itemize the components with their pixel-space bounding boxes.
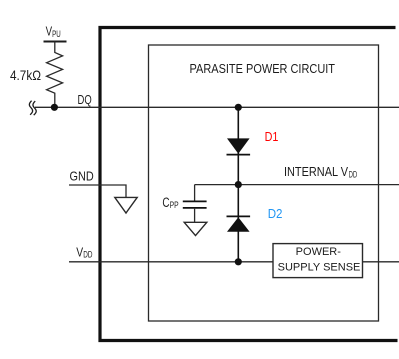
wire DQ	[35, 106, 399, 108]
wire internal VDD	[195, 184, 399, 186]
svg-text:POWER-: POWER-	[296, 246, 342, 258]
svg-text:INTERNAL V: INTERNAL V	[284, 165, 349, 179]
wire VDD left	[69, 261, 273, 263]
diode D2	[227, 216, 251, 231]
svg-text:SUPPLY SENSE: SUPPLY SENSE	[278, 261, 361, 273]
label INTERNAL VDD	[284, 165, 357, 179]
ground symbol GND	[115, 197, 137, 213]
svg-text:4.7kΩ: 4.7kΩ	[10, 67, 41, 83]
svg-text:DD: DD	[83, 250, 92, 260]
wire D1 branch	[237, 107, 239, 184]
node junction dot DQ D1	[235, 104, 242, 111]
wire GND	[69, 185, 126, 197]
label POWER-SUPPLY SENSE	[278, 246, 361, 273]
wire D2 branch	[237, 185, 239, 262]
svg-text:GND: GND	[70, 168, 94, 183]
VPU supply bar	[44, 41, 67, 43]
inner box parasite power circuit	[149, 45, 379, 321]
svg-text:D1: D1	[265, 129, 279, 144]
diode D1	[227, 138, 251, 154]
power-supply sense box	[273, 244, 363, 278]
label VPU	[46, 24, 61, 39]
capacitor CPP	[183, 185, 207, 223]
svg-text:D2: D2	[268, 206, 283, 221]
node junction dot resistor DQ	[51, 104, 58, 111]
svg-text:DD: DD	[349, 169, 357, 179]
resistor R pull-up	[47, 42, 63, 108]
wire break squiggle	[29, 101, 36, 115]
node junction dot VDD D2	[235, 258, 242, 265]
svg-text:PU: PU	[52, 29, 61, 39]
svg-text:PP: PP	[170, 200, 179, 210]
wire VDD right	[363, 261, 399, 263]
svg-text:PARASITE POWER CIRCUIT: PARASITE POWER CIRCUIT	[190, 62, 336, 76]
node junction dot internal VDD	[235, 181, 242, 188]
label CPP	[162, 195, 178, 210]
big box device outline	[100, 28, 398, 341]
svg-text:DQ: DQ	[78, 92, 92, 107]
ground symbol CPP	[184, 222, 207, 235]
label VDD	[76, 244, 92, 259]
